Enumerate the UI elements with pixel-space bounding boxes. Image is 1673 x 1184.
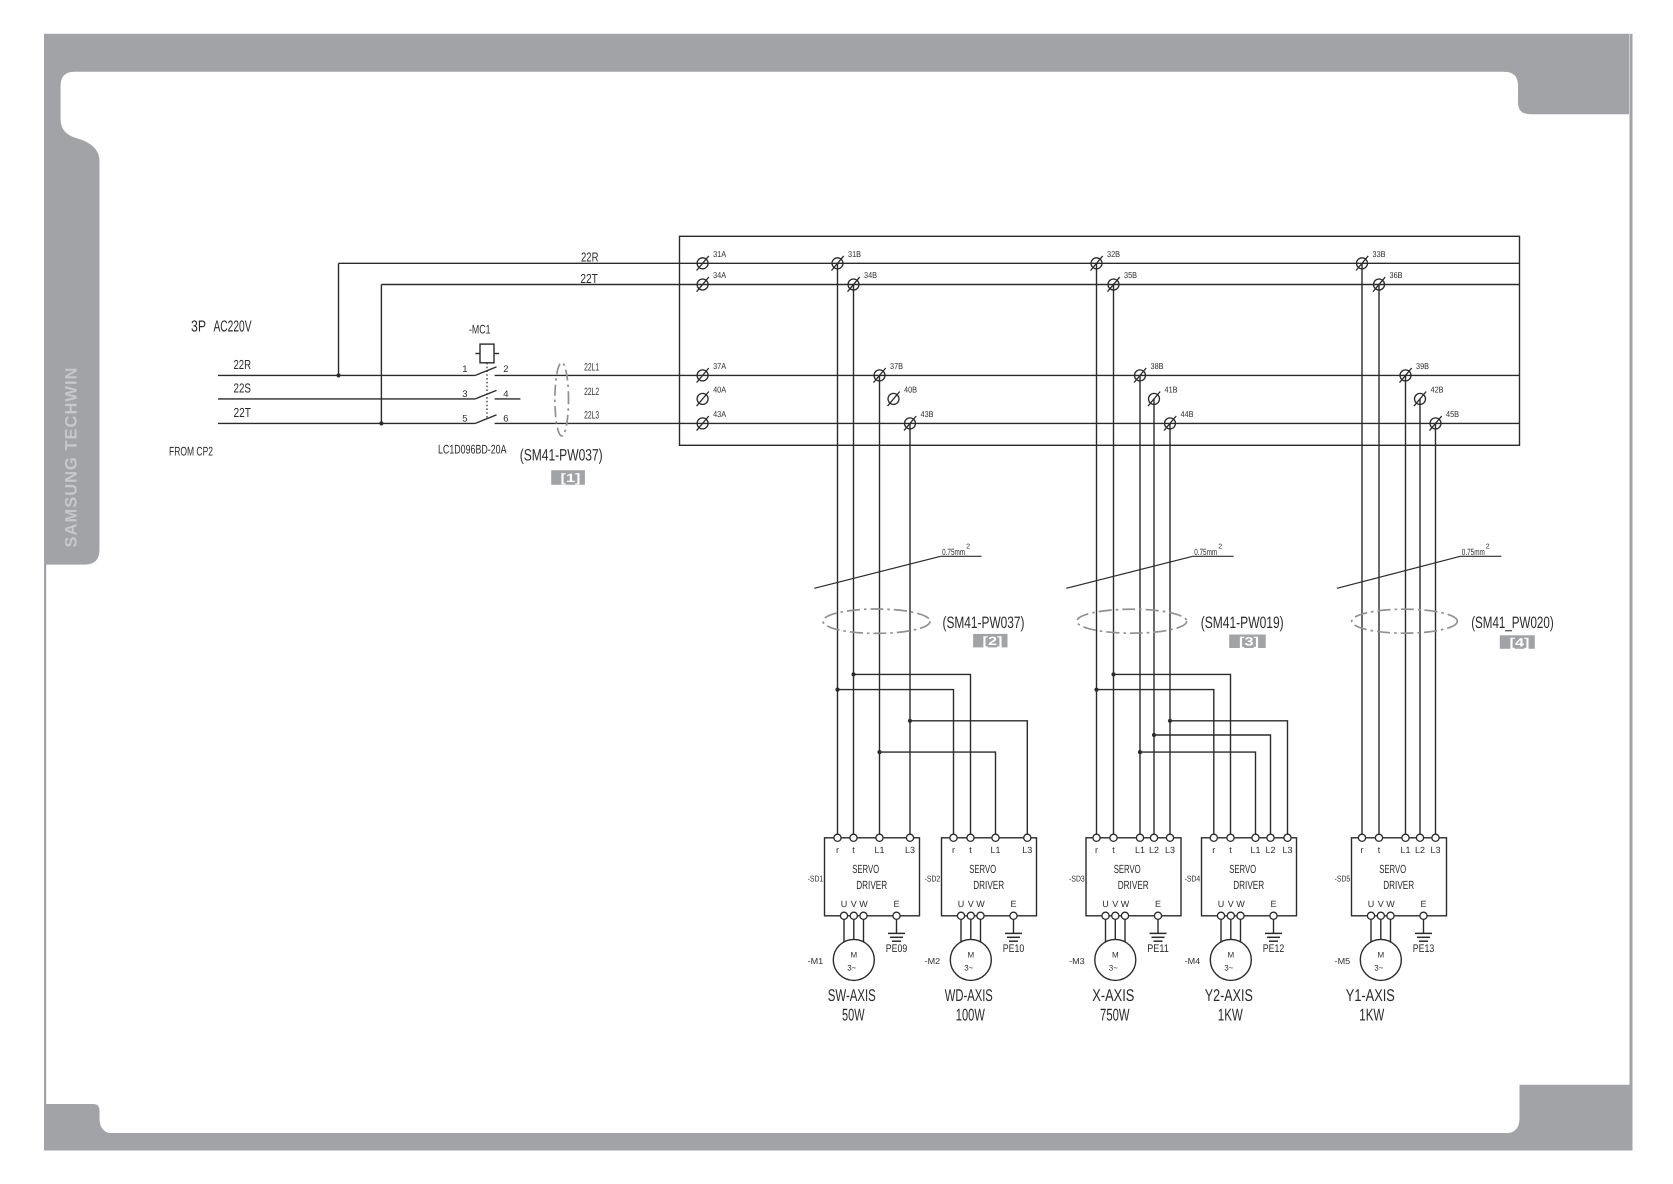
wire branch 37B to SD2 L1 (880, 752, 996, 838)
wire top bus 22R (row 1) (339, 262, 1520, 264)
pin t of SD4 (1227, 834, 1234, 841)
junction 22T riser (379, 421, 383, 425)
svg-text:40A: 40A (713, 385, 726, 395)
servo driver SD3 (1086, 834, 1181, 916)
terminal 36B (1373, 270, 1403, 292)
svg-text:[2]: [2] (983, 634, 1003, 648)
terminal 32B (1091, 249, 1121, 271)
svg-text:SERVO: SERVO (852, 862, 879, 876)
pin r of SD1 (834, 834, 841, 841)
svg-text:SERVO: SERVO (1114, 862, 1141, 876)
ground PE12 (1263, 919, 1285, 954)
svg-text:U: U (1218, 899, 1225, 909)
svg-text:AC220V: AC220V (214, 319, 252, 336)
wire 36B drop to SD5 t (1378, 285, 1380, 838)
svg-text:DRIVER: DRIVER (1383, 878, 1414, 892)
svg-text:-M3: -M3 (1069, 956, 1085, 966)
pin V of SD2 (967, 912, 974, 919)
pin E of SD1 (893, 912, 900, 919)
contactor MC1 contact 1-2 (475, 367, 496, 376)
pin U of SD2 (957, 912, 964, 919)
terminal 42B (1414, 385, 1444, 407)
svg-text:2: 2 (503, 364, 508, 375)
wire 43B drop to SD1 L3 (909, 423, 911, 837)
terminal 37B (874, 361, 904, 383)
svg-text:-SD4: -SD4 (1185, 874, 1201, 884)
wires U V W from SD2 to motor M2 (960, 916, 962, 945)
svg-text:DRIVER: DRIVER (856, 878, 887, 892)
motor M5 (Y1-AXIS 1KW) (1360, 939, 1401, 980)
svg-text:40B: 40B (904, 385, 917, 395)
svg-text:750W: 750W (1100, 1006, 1130, 1025)
wire 35B drop to SD3 t (1113, 285, 1115, 838)
svg-text:W: W (1236, 899, 1245, 909)
cable marker ellipse (SM41_PW020) [4] (1352, 609, 1458, 633)
pin W of SD5 (1387, 912, 1394, 919)
svg-text:1KW: 1KW (1359, 1006, 1384, 1025)
pin L1 of SD2 (992, 834, 999, 841)
badge [2] (973, 634, 1007, 648)
svg-text:M: M (1112, 950, 1119, 959)
svg-text:0.75mm: 0.75mm (1194, 547, 1217, 557)
svg-text:(SM41-PW037): (SM41-PW037) (520, 447, 603, 465)
svg-text:-M2: -M2 (925, 956, 941, 966)
pin L3 of SD4 (1284, 834, 1291, 841)
svg-text:W: W (1386, 899, 1395, 909)
svg-text:V: V (968, 899, 974, 909)
wire 32B drop to SD3 r (1096, 263, 1098, 838)
svg-text:39B: 39B (1416, 361, 1429, 371)
svg-text:37A: 37A (713, 361, 726, 371)
svg-text:L3: L3 (905, 845, 915, 855)
svg-text:M: M (1227, 950, 1234, 959)
terminal 43B (904, 409, 934, 431)
svg-text:W: W (976, 899, 985, 909)
badge [1] (551, 470, 585, 485)
svg-text:-SD2: -SD2 (925, 874, 941, 884)
svg-text:V: V (1378, 899, 1384, 909)
contactor MC1 linkage dotted line (486, 363, 488, 420)
svg-text:22T: 22T (234, 405, 252, 420)
pin U of SD3 (1102, 912, 1109, 919)
servo driver SD2 (942, 834, 1037, 916)
svg-text:V: V (1112, 899, 1118, 909)
svg-text:0.75mm: 0.75mm (942, 547, 965, 557)
svg-text:4: 4 (503, 389, 508, 400)
terminal 34B (848, 270, 878, 292)
svg-text:L1: L1 (1400, 845, 1410, 855)
terminal 31A (697, 249, 727, 271)
svg-text:L1: L1 (874, 845, 884, 855)
pin V of SD1 (850, 912, 857, 919)
svg-text:45B: 45B (1446, 409, 1459, 419)
svg-text:3~: 3~ (964, 964, 973, 973)
svg-text:2: 2 (1486, 544, 1490, 551)
contactor MC1 coil (475, 344, 499, 363)
terminal 44B (1164, 409, 1194, 431)
ground PE09 (886, 919, 908, 954)
svg-text:X-AXIS: X-AXIS (1092, 986, 1134, 1005)
servo driver SD1 (825, 834, 920, 916)
svg-text:-MC1: -MC1 (469, 322, 491, 336)
terminal 31B (832, 249, 862, 271)
svg-text:22R: 22R (234, 357, 252, 372)
svg-text:34A: 34A (713, 270, 726, 280)
svg-text:DRIVER: DRIVER (973, 878, 1004, 892)
svg-text:r: r (1212, 845, 1215, 855)
servo driver SD5 (1352, 834, 1447, 916)
pin E of SD4 (1270, 912, 1277, 919)
svg-text:31A: 31A (713, 249, 726, 259)
wires U V W from SD5 to motor M5 (1370, 916, 1372, 945)
pin V of SD4 (1227, 912, 1234, 919)
pin t of SD3 (1110, 834, 1117, 841)
pin W of SD3 (1121, 912, 1128, 919)
svg-text:0.75mm: 0.75mm (1462, 547, 1485, 557)
svg-text:(SM41-PW037): (SM41-PW037) (943, 614, 1025, 632)
wires U V W from SD4 to motor M4 (1220, 916, 1222, 945)
pin L2 of SD3 (1150, 834, 1157, 841)
svg-text:42B: 42B (1431, 385, 1444, 395)
ground PE11 (1147, 919, 1169, 954)
svg-text:r: r (1095, 845, 1098, 855)
pin L2 of SD5 (1416, 834, 1423, 841)
svg-text:[4]: [4] (1510, 635, 1530, 649)
svg-text:L2: L2 (1265, 845, 1275, 855)
pin L3 of SD5 (1432, 834, 1439, 841)
svg-text:50W: 50W (842, 1006, 865, 1025)
servo driver SD4 (1202, 834, 1297, 916)
pin L1 of SD5 (1402, 834, 1409, 841)
svg-text:E: E (1010, 899, 1016, 909)
ground PE13 (1413, 919, 1435, 954)
pin W of SD2 (977, 912, 984, 919)
wire 44B drop to SD3 L3 (1169, 423, 1171, 837)
svg-text:PE13: PE13 (1413, 943, 1435, 955)
wire 22L1 (row 3) (495, 374, 1520, 376)
svg-text:22L3: 22L3 (584, 410, 599, 422)
wire branch 31B to SD2 r (838, 690, 954, 838)
terminal 35B (1108, 270, 1138, 292)
pin E of SD3 (1154, 912, 1161, 919)
svg-text:L3: L3 (1165, 845, 1175, 855)
svg-text:2: 2 (966, 544, 970, 551)
leader 0.75mm2 cable 2 (814, 544, 981, 589)
frame: bottom gray bar (44, 1133, 1633, 1151)
wires U V W from SD1 to motor M1 (843, 916, 845, 945)
wire 45B drop to SD5 L3 (1435, 423, 1437, 837)
svg-text:3~: 3~ (1374, 964, 1383, 973)
terminal distribution box (680, 236, 1520, 445)
pin L3 of SD1 (906, 834, 913, 841)
svg-text:M: M (967, 950, 974, 959)
svg-text:FROM CP2: FROM CP2 (169, 445, 213, 459)
svg-text:L1: L1 (1135, 845, 1145, 855)
svg-text:5: 5 (462, 413, 467, 424)
svg-text:3~: 3~ (847, 964, 856, 973)
pin L1 of SD1 (876, 834, 883, 841)
svg-text:2: 2 (1218, 544, 1222, 551)
wire 22R feeder (row 22L1 left segment) (218, 374, 475, 376)
badge [4] (1500, 635, 1535, 649)
svg-text:34B: 34B (864, 270, 877, 280)
pin r of SD4 (1210, 834, 1217, 841)
svg-text:38B: 38B (1151, 361, 1164, 371)
svg-text:-M1: -M1 (808, 956, 824, 966)
svg-text:3: 3 (462, 389, 467, 400)
svg-text:(SM41_PW020): (SM41_PW020) (1471, 614, 1554, 632)
svg-text:M: M (1377, 950, 1384, 959)
pin r of SD5 (1358, 834, 1365, 841)
pin U of SD4 (1217, 912, 1224, 919)
svg-text:SERVO: SERVO (969, 862, 996, 876)
terminal 40B (888, 385, 918, 407)
pin t of SD5 (1375, 834, 1382, 841)
pin E of SD5 (1420, 912, 1427, 919)
pin L2 of SD4 (1267, 834, 1274, 841)
svg-text:PE11: PE11 (1147, 943, 1169, 955)
wire 31B drop to SD1 r (837, 263, 839, 838)
terminal 40A (697, 385, 727, 407)
wire 39B drop to SD5 L1 (1405, 375, 1407, 837)
motor M4 (Y2-AXIS 1KW) (1210, 939, 1251, 980)
svg-text:-SD5: -SD5 (1335, 874, 1351, 884)
svg-text:-M4: -M4 (1185, 956, 1201, 966)
svg-text:E: E (893, 899, 899, 909)
svg-text:100W: 100W (956, 1006, 985, 1025)
svg-text:Y1-AXIS: Y1-AXIS (1346, 986, 1395, 1005)
frame: right thin border line (1630, 34, 1633, 1086)
wire branch 35B to SD4 t (1114, 674, 1231, 837)
wire 22T feeder (218, 422, 475, 424)
svg-text:32B: 32B (1107, 249, 1120, 259)
svg-text:SAMSUNG TECHWIN: SAMSUNG TECHWIN (63, 367, 81, 548)
svg-text:PE09: PE09 (886, 943, 908, 955)
cable marker ellipse (SM41-PW037) [1] (555, 363, 569, 436)
pin L1 of SD3 (1136, 834, 1143, 841)
terminal 33B (1356, 249, 1386, 271)
svg-text:E: E (1420, 899, 1426, 909)
pin U of SD1 (840, 912, 847, 919)
frame: bottom-left tab (44, 1104, 114, 1134)
pin L1 of SD4 (1252, 834, 1259, 841)
svg-text:LC1D096BD-20A: LC1D096BD-20A (438, 443, 507, 457)
svg-text:22L1: 22L1 (584, 361, 599, 373)
wire 22L3 (row 5) (495, 422, 1520, 424)
frame: top-right tab (1504, 71, 1629, 114)
svg-text:r: r (952, 845, 955, 855)
wires U V W from SD3 to motor M3 (1105, 916, 1107, 945)
pin W of SD1 (860, 912, 867, 919)
svg-text:-M5: -M5 (1335, 956, 1351, 966)
wire branch 43B to SD2 L3 (910, 721, 1027, 838)
wire 34B drop to SD1 t (853, 285, 855, 838)
badge [3] (1229, 635, 1266, 649)
svg-text:22R: 22R (581, 250, 599, 265)
svg-text:SW-AXIS: SW-AXIS (828, 986, 876, 1005)
frame: bottom-right tab (1505, 1085, 1633, 1134)
svg-text:L1: L1 (1250, 845, 1260, 855)
motor M3 (X-AXIS 750W) (1095, 939, 1136, 980)
terminal 39B (1400, 361, 1430, 383)
wire 22S feeder (218, 398, 475, 400)
svg-text:43B: 43B (921, 409, 934, 419)
svg-text:U: U (841, 899, 848, 909)
svg-text:36B: 36B (1390, 270, 1403, 280)
svg-text:43A: 43A (713, 409, 726, 419)
svg-text:L3: L3 (1022, 845, 1032, 855)
svg-text:V: V (851, 899, 857, 909)
svg-text:W: W (859, 899, 868, 909)
terminal 37A (697, 361, 727, 383)
svg-text:DRIVER: DRIVER (1233, 878, 1264, 892)
svg-text:DRIVER: DRIVER (1118, 878, 1149, 892)
svg-text:WD-AXIS: WD-AXIS (945, 986, 993, 1005)
wire branch 38B to SD4 L1 (1140, 752, 1256, 838)
pin W of SD4 (1237, 912, 1244, 919)
svg-text:SERVO: SERVO (1379, 862, 1406, 876)
pin t of SD1 (850, 834, 857, 841)
svg-text:22T: 22T (580, 271, 598, 286)
wire riser 22T to top bus (380, 285, 382, 424)
svg-text:PE12: PE12 (1263, 943, 1285, 955)
svg-text:Y2-AXIS: Y2-AXIS (1205, 986, 1253, 1005)
pin U of SD5 (1367, 912, 1374, 919)
svg-text:(SM41-PW019): (SM41-PW019) (1201, 614, 1284, 632)
wire branch 34B to SD2 t (854, 674, 971, 837)
terminal 38B (1134, 361, 1164, 383)
wire 38B drop to SD3 L1 (1139, 375, 1141, 837)
pin r of SD3 (1093, 834, 1100, 841)
junction 22R riser (336, 373, 340, 377)
motor M1 (SW-AXIS 50W) (833, 939, 874, 980)
svg-text:-SD1: -SD1 (808, 874, 824, 884)
svg-text:41B: 41B (1165, 385, 1178, 395)
contactor MC1 contact 5-6 (475, 415, 496, 424)
svg-text:W: W (1121, 899, 1130, 909)
pin E of SD2 (1010, 912, 1017, 919)
svg-text:L2: L2 (1149, 845, 1159, 855)
svg-text:r: r (1361, 845, 1364, 855)
terminal 45B (1430, 409, 1460, 431)
wire riser 22R to top bus (338, 263, 340, 375)
leader 0.75mm2 cable 4 (1337, 544, 1501, 589)
pin L3 of SD2 (1024, 834, 1031, 841)
terminal 34A (697, 270, 727, 292)
svg-text:37B: 37B (890, 361, 903, 371)
wire branch 41B to SD4 L2 (1154, 735, 1271, 838)
svg-text:1: 1 (462, 364, 467, 375)
ground PE10 (1003, 919, 1025, 954)
motor M2 (WD-AXIS 100W) (950, 939, 991, 980)
pin V of SD3 (1112, 912, 1119, 919)
svg-text:L2: L2 (1415, 845, 1425, 855)
svg-text:U: U (1102, 899, 1109, 909)
wire branch 44B to SD4 L3 (1170, 721, 1288, 838)
svg-text:-SD3: -SD3 (1069, 874, 1085, 884)
svg-text:31B: 31B (848, 249, 861, 259)
svg-text:[3]: [3] (1239, 635, 1259, 649)
svg-text:3P: 3P (191, 319, 206, 336)
cable marker ellipse (SM41-PW019) [3] (1077, 609, 1187, 633)
svg-text:E: E (1270, 899, 1276, 909)
svg-text:3~: 3~ (1109, 964, 1118, 973)
svg-text:22S: 22S (234, 381, 252, 396)
wire branch 32B to SD4 r (1097, 690, 1214, 838)
svg-text:V: V (1228, 899, 1234, 909)
svg-text:PE10: PE10 (1003, 943, 1025, 955)
svg-text:L1: L1 (990, 845, 1000, 855)
wire 37B drop to SD1 L1 (879, 375, 881, 837)
svg-text:E: E (1155, 899, 1161, 909)
svg-text:r: r (836, 845, 839, 855)
svg-text:1KW: 1KW (1218, 1006, 1243, 1025)
terminal 43A (697, 409, 727, 431)
svg-text:[1]: [1] (561, 471, 581, 485)
svg-text:L3: L3 (1282, 845, 1292, 855)
svg-text:33B: 33B (1373, 249, 1386, 259)
pin t of SD2 (967, 834, 974, 841)
contactor MC1 contact 3-4 (475, 390, 496, 399)
pin r of SD2 (950, 834, 957, 841)
svg-text:L3: L3 (1430, 845, 1440, 855)
svg-text:22L2: 22L2 (584, 386, 599, 398)
cable marker ellipse (SM41-PW037) [2] (823, 609, 930, 633)
svg-text:44B: 44B (1181, 409, 1194, 419)
pin V of SD5 (1377, 912, 1384, 919)
wire 41B drop to SD3 L2 (1153, 399, 1155, 838)
terminal 41B (1148, 385, 1178, 407)
wire 22L2 stub (row 4) (495, 398, 521, 400)
svg-text:U: U (1368, 899, 1375, 909)
pin L3 of SD3 (1166, 834, 1173, 841)
svg-text:35B: 35B (1124, 270, 1137, 280)
svg-text:SERVO: SERVO (1229, 862, 1256, 876)
wire 42B drop to SD5 L2 (1419, 399, 1421, 838)
svg-text:3~: 3~ (1224, 964, 1233, 973)
svg-text:M: M (850, 950, 857, 959)
svg-text:U: U (958, 899, 965, 909)
wire 33B drop to SD5 r (1361, 263, 1363, 838)
wire top bus 22T (row 2) (381, 284, 1519, 286)
leader 0.75mm2 cable 3 (1066, 544, 1233, 589)
